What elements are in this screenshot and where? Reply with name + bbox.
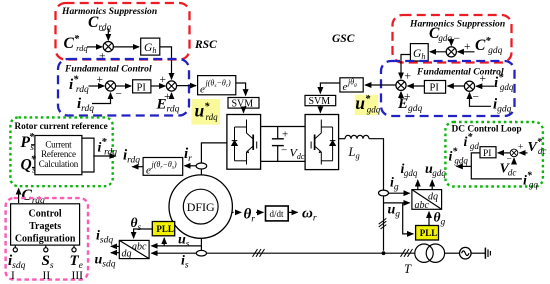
- svg-text:e: e: [200, 84, 205, 96]
- svg-text:−: −: [281, 145, 287, 157]
- svg-text:i*gq: i*gq: [523, 171, 538, 190]
- wire u_gdq out up: [431, 180, 433, 189]
- svg-text:Q*s: Q*s: [21, 155, 37, 176]
- summing junction S7: [510, 149, 518, 157]
- svg-text:Configuration: Configuration: [15, 234, 76, 245]
- svg-text:PLL: PLL: [156, 224, 174, 234]
- svg-text:igdq: igdq: [493, 97, 512, 115]
- wire junction S4 to Gh: [430, 51, 447, 53]
- wire sensor to rotation block e^j(tr-ts): [185, 165, 197, 167]
- wire i_g into abc-dq2: [389, 192, 410, 194]
- svg-text:irdq: irdq: [77, 96, 94, 114]
- svg-text:−: −: [116, 89, 123, 101]
- svg-text:+: +: [518, 143, 523, 153]
- svg-text:i*gd: i*gd: [464, 132, 480, 151]
- block Gh (RSC): [141, 38, 160, 55]
- wire d/dt to omega_r: [288, 211, 297, 213]
- svg-text:III: III: [72, 270, 84, 282]
- rotation block e^j(ts-tr): [198, 76, 236, 96]
- wire u_sdq out: [111, 252, 119, 254]
- transformation block abc-dq1: [119, 240, 149, 259]
- three-phase slashes before transformer: [401, 249, 413, 257]
- svg-text:dq: dq: [428, 192, 438, 203]
- svg-text:ug: ug: [388, 203, 401, 220]
- wire rotation block to SVM2: [320, 83, 340, 93]
- svg-text:ig: ig: [390, 176, 399, 193]
- wire PI output loop: [471, 153, 522, 179]
- wire V*_dc to junction S7: [520, 152, 528, 154]
- block SVM1: [228, 98, 259, 110]
- wire DFIG stator down: [200, 238, 202, 250]
- svg-text:Fundamental Control: Fundamental Control: [416, 67, 504, 78]
- svg-text:ir: ir: [184, 146, 192, 164]
- svg-text:RSC: RSC: [194, 39, 217, 51]
- wire C_rdq up into green box: [18, 189, 20, 204]
- svg-text:isdq: isdq: [96, 229, 113, 246]
- block PLL1: [152, 222, 174, 236]
- block PI (GSC): [424, 81, 445, 94]
- wire i*_gdq to junction S6: [476, 85, 494, 87]
- svg-text:Lg: Lg: [348, 145, 360, 161]
- wire S5 to rotation block e_jtg: [365, 84, 396, 86]
- svg-text:T: T: [404, 262, 412, 276]
- wire S2 to PI: [115, 85, 131, 87]
- wire theta_s PLL1 to abc-dq1: [134, 229, 153, 238]
- wire V_dc up into junction S7: [513, 158, 515, 164]
- svg-text:θr: θr: [244, 207, 256, 225]
- wire Gh down to summing junction S5: [401, 55, 410, 79]
- arrow i_s into abc-dq1: [152, 252, 159, 254]
- svg-text:V*dc: V*dc: [528, 137, 547, 156]
- svg-text:Te: Te: [70, 253, 83, 271]
- svg-text:SVM: SVM: [309, 96, 331, 107]
- wire theta_r dotted: [232, 211, 241, 213]
- wire i_gdq out up: [417, 180, 419, 189]
- stator bus i_s: [152, 252, 415, 254]
- fundamental control box (GSC): [381, 61, 515, 116]
- wire junction S6 to PI: [448, 85, 465, 87]
- wire SVM1 to RSC converter: [243, 108, 245, 113]
- svg-text:DFIG: DFIG: [187, 200, 215, 214]
- svg-text:Control: Control: [29, 209, 62, 220]
- wire C*_gdq to junction S4: [458, 51, 475, 53]
- svg-text:Vdc: Vdc: [290, 146, 305, 161]
- wire u_s line: [152, 245, 201, 247]
- wire PI to junction S5: [408, 85, 425, 87]
- svg-text:is: is: [181, 254, 189, 271]
- GSC converter IGBT: [311, 120, 333, 165]
- wire S3 to rotation block: [176, 85, 196, 87]
- svg-text:+: +: [405, 71, 412, 83]
- terminal III: [72, 245, 76, 252]
- terminal I: [13, 245, 17, 252]
- svg-text:Harmonics Suppression: Harmonics Suppression: [61, 6, 157, 17]
- wire i_gdq up into junction S6: [470, 93, 492, 107]
- svg-text:abc: abc: [415, 200, 430, 211]
- inductor Lg: [345, 135, 369, 138]
- wire theta_r to d/dt: [256, 211, 263, 213]
- DC link capacitor: [272, 127, 284, 162]
- svg-text:Fundamental Control: Fundamental Control: [64, 64, 152, 75]
- svg-text:Harmonics Suppression: Harmonics Suppression: [409, 19, 505, 30]
- block current reference calculation: [35, 136, 82, 175]
- summing junction S6: [464, 81, 474, 91]
- svg-text:−: −: [454, 33, 461, 45]
- AC grid source: [460, 247, 472, 259]
- svg-text:θg: θg: [434, 210, 446, 228]
- DC control loop box: [445, 122, 543, 187]
- wire Q*_s to block: [32, 167, 35, 169]
- wire i*_rdq output: [93, 155, 115, 157]
- wire SVM2 to GSC converter: [319, 106, 321, 113]
- transformer T: [415, 244, 445, 262]
- svg-text:usdq: usdq: [95, 253, 116, 270]
- RSC converter diode: [232, 127, 238, 161]
- harmonics suppression box (RSC): [56, 3, 190, 60]
- DC link top rail: [261, 126, 306, 128]
- wire junction to Gh: [113, 46, 139, 48]
- block Gh (GSC): [410, 44, 428, 62]
- svg-text:d/dt: d/dt: [270, 209, 285, 219]
- wire transformer to source: [445, 252, 460, 254]
- wire E_gdq up into junction S5: [400, 92, 402, 99]
- GSC converter box: [305, 115, 339, 170]
- svg-text:SVM: SVM: [232, 98, 254, 109]
- svg-text:PI: PI: [483, 149, 491, 159]
- block SVM2: [305, 95, 336, 107]
- wire C*_rdq to junction: [87, 46, 102, 48]
- wire u_g into abc-dq2: [384, 202, 410, 204]
- wire C_rdq down to junction: [107, 29, 109, 41]
- svg-text:abc: abc: [132, 241, 147, 252]
- wire rotor horizontal: [201, 143, 227, 163]
- wire rotation block output i_rdq: [132, 166, 143, 168]
- ground: [485, 248, 490, 259]
- transformation block abc-dq2: [412, 190, 442, 211]
- svg-text:Calculation: Calculation: [39, 159, 79, 169]
- summing junction S3: [166, 81, 176, 91]
- svg-text:−: −: [99, 26, 106, 38]
- svg-text:θs: θs: [131, 215, 142, 233]
- wire i*_gdq branch out: [457, 165, 472, 167]
- svg-text:dq: dq: [122, 249, 132, 260]
- svg-text:PLL: PLL: [420, 228, 438, 238]
- stator current sensor: [196, 250, 206, 256]
- DFIG machine: [169, 175, 232, 238]
- grid current sensor: [379, 190, 389, 196]
- svg-text:C*gdq: C*gdq: [475, 36, 503, 56]
- summing junction S4: [446, 47, 456, 57]
- wire PLL1 tap: [163, 238, 165, 246]
- three-phase slashes on stator bus: [253, 249, 265, 257]
- wire source to ground: [471, 252, 485, 254]
- svg-text:ωr: ωr: [302, 206, 317, 224]
- wire i_rdq up into junction S2: [92, 93, 111, 104]
- svg-text:Current: Current: [45, 140, 72, 150]
- rotation block e^j(tr-ts): [143, 158, 183, 177]
- harmonics suppression box (GSC): [393, 15, 512, 63]
- summing junction S5: [396, 80, 406, 90]
- svg-text:+: +: [99, 51, 106, 63]
- svg-text:II: II: [43, 270, 51, 282]
- wire theta_g PLL2 to abc-dq2: [428, 212, 430, 226]
- fundamental control box (RSC): [58, 59, 189, 116]
- three-phase slashes on grid vertical: [379, 218, 387, 229]
- block PI (RSC): [133, 80, 151, 94]
- wire inductor to grid vertical: [369, 139, 384, 251]
- svg-text:+: +: [97, 74, 104, 86]
- svg-text:PI: PI: [137, 82, 147, 93]
- svg-text:i*gdq: i*gdq: [494, 73, 514, 93]
- RSC converter box: [227, 115, 261, 170]
- svg-text:Reference: Reference: [41, 149, 76, 159]
- DC link bottom rail: [261, 160, 306, 162]
- svg-text:P*s: P*s: [21, 132, 35, 153]
- svg-text:DC Control Loop: DC Control Loop: [452, 125, 522, 135]
- output bracket: [82, 138, 94, 172]
- svg-text:I: I: [11, 270, 15, 282]
- svg-text:Ss: Ss: [42, 253, 54, 271]
- highlight label u*_rdq: [192, 99, 221, 125]
- svg-text:isdq: isdq: [8, 253, 26, 271]
- block d/dt: [266, 206, 289, 221]
- svg-text:ugdq: ugdq: [425, 162, 446, 178]
- wire u_g tap to PLL2: [403, 203, 414, 234]
- svg-text:+: +: [160, 74, 167, 86]
- svg-text:Rotor current reference: Rotor current reference: [15, 121, 108, 131]
- wire PI to junction S3: [151, 85, 165, 87]
- block PLL2: [416, 226, 439, 241]
- svg-text:Tragets: Tragets: [29, 221, 61, 232]
- block PI (DC loop): [480, 147, 496, 159]
- wire P*_s to block: [31, 144, 35, 146]
- summing junction S2: [105, 81, 115, 91]
- wire E_rdq up into junction S3: [171, 93, 173, 99]
- svg-text:C*rdq: C*rdq: [64, 34, 89, 53]
- svg-text:igdq: igdq: [401, 162, 418, 178]
- RSC converter IGBT: [235, 120, 257, 165]
- wire junction S7 to PI: [498, 152, 510, 154]
- terminal II: [44, 245, 48, 252]
- wire sensor to DFIG: [200, 169, 202, 176]
- svg-text:Crdq: Crdq: [22, 187, 45, 206]
- rotor current reference box: [10, 117, 112, 186]
- rotation block e^jtg: [340, 78, 363, 94]
- svg-text:irdq: irdq: [123, 148, 140, 166]
- wire C_gdq down to junction: [450, 39, 452, 46]
- wire i*_rdq to junction S2: [89, 85, 105, 87]
- highlight label u*_gdq: [355, 93, 381, 115]
- svg-text:+: +: [480, 73, 487, 85]
- svg-text:e: e: [343, 81, 348, 93]
- svg-text:PI: PI: [430, 83, 440, 94]
- arrow u_s into abc-dq1: [152, 245, 159, 247]
- svg-text:e: e: [146, 165, 151, 177]
- svg-text:+: +: [282, 129, 288, 141]
- GSC converter diode: [330, 127, 336, 161]
- svg-text:i*rdq: i*rdq: [98, 137, 118, 158]
- summing junction S1: [103, 42, 113, 52]
- wire rotation block to SVM1: [236, 83, 246, 95]
- junction dot grid: [382, 251, 386, 255]
- svg-text:−: −: [473, 92, 480, 104]
- rotor current sensor: [196, 163, 207, 169]
- wire GSC to inductor: [339, 138, 345, 140]
- wire i_sdq out: [111, 245, 119, 247]
- wire Gh down to summing junction S3: [160, 47, 172, 79]
- svg-text:GSC: GSC: [332, 33, 355, 45]
- control targets configuration box: [6, 198, 88, 280]
- svg-text:i*rdq: i*rdq: [69, 75, 89, 96]
